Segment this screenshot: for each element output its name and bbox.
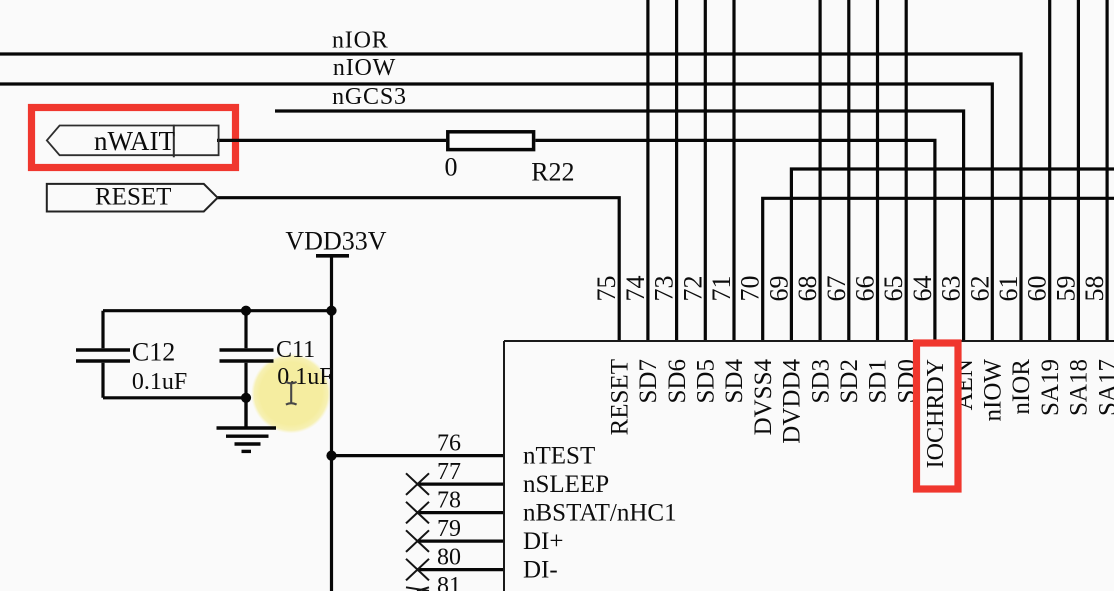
svg-text:RESET: RESET bbox=[95, 184, 171, 211]
svg-text:SD7: SD7 bbox=[635, 359, 662, 403]
svg-text:0.1uF: 0.1uF bbox=[277, 364, 332, 390]
svg-text:SD2: SD2 bbox=[836, 359, 863, 403]
svg-text:nGCS3: nGCS3 bbox=[332, 84, 407, 110]
wire pin 67 SD2 bbox=[847, 0, 850, 341]
ground symbol bbox=[217, 398, 277, 452]
wire C12 branch bbox=[101, 311, 104, 398]
svg-text:nTEST: nTEST bbox=[523, 443, 595, 470]
svg-text:65: 65 bbox=[879, 276, 908, 302]
svg-text:72: 72 bbox=[678, 276, 707, 302]
svg-text:nBSTAT/nHC1: nBSTAT/nHC1 bbox=[523, 500, 677, 527]
wire resistor R22 to pin 64 bbox=[535, 140, 935, 341]
wire pin 65 SD0 bbox=[905, 0, 908, 341]
wire nGCS3 net to pin 63 bbox=[275, 111, 964, 341]
net label RESET flag outline bbox=[47, 184, 218, 212]
svg-text:SA19: SA19 bbox=[1037, 359, 1064, 416]
wire pin 73 SD6 bbox=[675, 0, 678, 341]
svg-text:SD4: SD4 bbox=[721, 359, 748, 404]
svg-text:SA18: SA18 bbox=[1066, 359, 1093, 416]
svg-text:71: 71 bbox=[707, 276, 736, 302]
wire VDD rail bbox=[330, 257, 333, 591]
text cursor caret in nWAIT label bbox=[173, 125, 175, 158]
no-connect X pin 80 bbox=[406, 559, 429, 581]
svg-text:75: 75 bbox=[592, 276, 621, 302]
no-connect X pin 81 (partial) bbox=[406, 587, 429, 591]
red annotation box around IOCHRDY pin name bbox=[917, 343, 959, 489]
junction node C11/VDD top rail bbox=[241, 306, 251, 316]
wire nWAIT flag to resistor R22 bbox=[217, 139, 446, 142]
power symbol VDD33V bar bbox=[316, 254, 349, 258]
svg-text:64: 64 bbox=[908, 276, 937, 302]
svg-text:SD1: SD1 bbox=[865, 359, 892, 403]
svg-text:SD3: SD3 bbox=[807, 359, 834, 403]
svg-text:RESET: RESET bbox=[606, 359, 633, 435]
svg-text:DI-: DI- bbox=[523, 557, 558, 584]
wire pin 59 SA18 bbox=[1077, 0, 1080, 341]
wire pin 58 SA17 bbox=[1105, 0, 1108, 341]
wire DVSS4 pin 70 to right edge bbox=[763, 198, 1114, 341]
svg-text:SA17: SA17 bbox=[1094, 359, 1114, 416]
svg-text:79: 79 bbox=[437, 516, 461, 542]
svg-text:DVDD4: DVDD4 bbox=[779, 359, 806, 444]
wire pin 76 nTEST bbox=[332, 454, 505, 457]
svg-text:0.1uF: 0.1uF bbox=[132, 369, 187, 395]
svg-text:63: 63 bbox=[937, 276, 966, 302]
IC U? left border bbox=[503, 341, 505, 591]
wire pin 77 bbox=[418, 483, 505, 486]
wire nIOR net to pin 61 bbox=[0, 54, 1021, 341]
wire pin 72 SD5 bbox=[704, 0, 707, 341]
wire capacitor top rail bbox=[103, 309, 332, 312]
svg-text:70: 70 bbox=[736, 276, 765, 302]
svg-text:61: 61 bbox=[994, 276, 1023, 302]
wire pin 66 SD1 bbox=[876, 0, 879, 341]
svg-text:66: 66 bbox=[851, 276, 880, 302]
svg-text:0: 0 bbox=[445, 153, 458, 182]
wire RESET flag to pin 75 bbox=[218, 198, 620, 341]
wire pin 78 bbox=[418, 511, 505, 514]
svg-text:DI+: DI+ bbox=[523, 528, 563, 555]
svg-text:VDD33V: VDD33V bbox=[285, 227, 386, 256]
svg-text:69: 69 bbox=[764, 276, 793, 302]
pin names RESET..SA17 rotated bbox=[606, 359, 1114, 469]
wire pin 71 SD4 bbox=[732, 0, 735, 341]
junction node VDD rail / pin76 bbox=[326, 451, 336, 461]
svg-text:C11: C11 bbox=[276, 337, 315, 363]
wire pin 60 SA19 bbox=[1048, 0, 1051, 341]
junction node VDD rail / cap rail bbox=[326, 306, 336, 316]
svg-text:59: 59 bbox=[1051, 276, 1080, 302]
capacitor C12 plates bbox=[76, 350, 130, 361]
svg-text:80: 80 bbox=[437, 545, 461, 571]
svg-text:nWAIT: nWAIT bbox=[94, 126, 175, 156]
svg-text:67: 67 bbox=[822, 276, 851, 302]
wire pin 80 bbox=[418, 568, 505, 571]
pin numbers 75..58 rotated bbox=[592, 276, 1109, 302]
red annotation box around nWAIT flag bbox=[32, 108, 236, 168]
svg-text:nIOR: nIOR bbox=[332, 28, 389, 54]
svg-text:DVSS4: DVSS4 bbox=[750, 359, 777, 436]
svg-text:77: 77 bbox=[437, 459, 461, 485]
no-connect X pin 79 bbox=[406, 530, 429, 552]
svg-text:76: 76 bbox=[437, 431, 461, 457]
svg-text:74: 74 bbox=[621, 276, 650, 302]
svg-text:58: 58 bbox=[1080, 276, 1109, 302]
svg-text:78: 78 bbox=[437, 488, 461, 514]
wire pin 79 bbox=[418, 539, 505, 542]
svg-text:nIOW: nIOW bbox=[980, 359, 1007, 422]
svg-text:68: 68 bbox=[793, 276, 822, 302]
I-beam mouse cursor bbox=[286, 382, 297, 405]
wire DVDD4 pin 69 to right edge bbox=[791, 169, 1114, 341]
net label nWAIT flag outline bbox=[47, 126, 219, 156]
wire nIOW net to pin 62 bbox=[0, 84, 992, 341]
svg-text:nSLEEP: nSLEEP bbox=[523, 471, 609, 498]
IC U? top border bbox=[504, 340, 1114, 342]
capacitor C11 plates bbox=[220, 350, 274, 361]
no-connect X pin 77 bbox=[406, 473, 429, 495]
svg-text:nIOW: nIOW bbox=[333, 55, 396, 81]
svg-text:C12: C12 bbox=[132, 338, 175, 367]
wire pin 74 SD7 bbox=[646, 0, 649, 341]
wire C11 branch bbox=[244, 311, 247, 398]
no-connect X pin 78 bbox=[406, 502, 429, 524]
svg-text:nIOR: nIOR bbox=[1008, 359, 1035, 415]
svg-text:62: 62 bbox=[965, 276, 994, 302]
svg-text:IOCHRDY: IOCHRDY bbox=[923, 359, 949, 468]
resistor R22 body bbox=[448, 132, 534, 150]
svg-text:SD5: SD5 bbox=[693, 359, 720, 403]
wire capacitor bottom rail bbox=[103, 396, 246, 399]
svg-text:SD6: SD6 bbox=[664, 359, 691, 403]
svg-text:R22: R22 bbox=[531, 157, 574, 186]
svg-text:73: 73 bbox=[650, 276, 679, 302]
wire pin 68 SD3 bbox=[818, 0, 821, 341]
junction node C11 bottom / ground bbox=[241, 393, 251, 403]
svg-text:60: 60 bbox=[1023, 276, 1052, 302]
svg-text:81: 81 bbox=[437, 573, 461, 591]
